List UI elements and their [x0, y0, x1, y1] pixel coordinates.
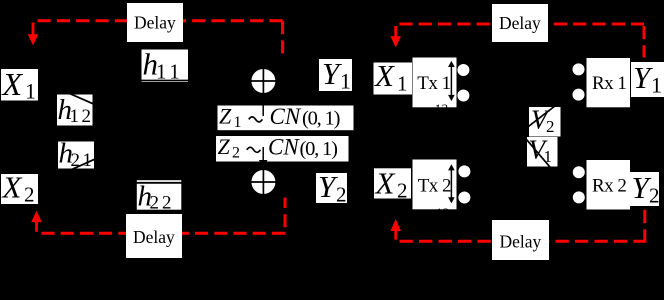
label V2 side information — [529, 105, 561, 137]
svg-text:Delay: Delay — [134, 13, 176, 33]
wire: X2 to adder1 crossing h21 — [62, 155, 104, 174]
node Y1 (right diagram) — [631, 60, 664, 98]
adder U2 (bottom sum node) — [250, 169, 276, 195]
svg-text:Tx 2: Tx 2 — [418, 176, 451, 197]
svg-text:Delay: Delay — [133, 227, 175, 247]
wire: Z2 arrow into adder2 — [262, 147, 264, 162]
wire: Tx2 to Rx1 crossing V2 — [524, 101, 562, 130]
wire: right feedback bottom (Y2 to X2 via delay), red dashed — [400, 206, 645, 243]
wire: left feedback bottom (Y2 to X2 via delay), red dashed — [42, 198, 286, 234]
svg-text:1: 1 — [544, 147, 553, 166]
antenna dot Rx1 bottom — [573, 89, 585, 101]
antenna dot Tx1 top — [457, 64, 469, 76]
wire: right feedback top (Y1 to X1 via delay), red dashed — [399, 24, 644, 58]
svg-text:Y: Y — [633, 60, 653, 95]
antenna dot Tx2 bottom — [458, 192, 470, 204]
svg-text:Delay: Delay — [499, 13, 541, 33]
wire: X1 to adder2 crossing h12 — [62, 90, 100, 107]
svg-text:X: X — [373, 58, 395, 93]
label V1 side information — [527, 135, 558, 167]
svg-text:Y: Y — [318, 169, 338, 204]
node X1 (left diagram) — [1, 66, 39, 104]
antenna dot Rx2 top — [573, 166, 585, 178]
label Z1 noise — [218, 103, 354, 131]
svg-text:1: 1 — [25, 79, 36, 104]
node Y2 (right diagram) — [630, 170, 660, 208]
svg-text:22: 22 — [150, 193, 175, 214]
label h21 channel gain — [58, 138, 95, 172]
wire: X1 to adder1 crossing under h11 — [138, 80, 191, 82]
label h22 channel gain — [137, 180, 182, 213]
svg-text:Y: Y — [322, 56, 342, 91]
svg-text:1: 1 — [397, 72, 408, 96]
node Y1 (left diagram) — [319, 56, 352, 94]
svg-text:2: 2 — [546, 117, 555, 136]
svg-text:Rx 2: Rx 2 — [592, 176, 626, 197]
svg-text:CN: CN — [268, 135, 300, 160]
svg-text:1: 1 — [340, 69, 351, 94]
label h11 channel gain — [142, 47, 189, 84]
antenna dot Rx1 top — [573, 63, 585, 75]
svg-text:Delay: Delay — [500, 232, 542, 252]
antenna dot Rx2 bottom — [573, 191, 585, 203]
svg-text:X: X — [374, 165, 396, 200]
block Delay (left bottom) — [126, 214, 182, 258]
block Delay (right top) — [492, 4, 548, 42]
svg-text:(0, 1): (0, 1) — [300, 138, 338, 160]
svg-text:12: 12 — [70, 106, 94, 127]
node X1 (right diagram) — [373, 58, 412, 96]
svg-text:12: 12 — [434, 102, 448, 117]
node X2 (right diagram) — [374, 165, 412, 202]
svg-text:Rx 1: Rx 1 — [592, 73, 626, 94]
svg-text:2: 2 — [24, 183, 35, 207]
block Delay (left top) — [127, 3, 183, 42]
arrowhead red: into X1 left — [28, 23, 39, 46]
svg-text:1: 1 — [651, 73, 662, 98]
svg-text:2: 2 — [336, 183, 347, 207]
block Tx 2 — [413, 160, 457, 210]
svg-text:X: X — [1, 66, 24, 102]
block Rx 1 — [587, 58, 631, 107]
wire: Z1 arrow tail into adder1 — [262, 105, 264, 116]
node Y2 (left diagram) — [316, 169, 347, 207]
arrowhead red: into X2 left — [31, 211, 42, 232]
node X2 (left diagram) — [1, 170, 39, 207]
adder U1 (top sum node) — [250, 68, 276, 94]
svg-text:Z: Z — [218, 134, 231, 159]
svg-text:1: 1 — [234, 114, 242, 131]
block Tx 1 — [413, 58, 457, 108]
svg-text:2: 2 — [649, 184, 660, 208]
svg-text:Tx 1: Tx 1 — [417, 73, 450, 94]
svg-text:12: 12 — [435, 206, 449, 221]
svg-text:CN: CN — [270, 104, 302, 129]
label h12 channel gain — [57, 94, 94, 127]
svg-text:2: 2 — [397, 178, 408, 202]
antenna arrow inside Tx 2 — [448, 164, 455, 203]
arrowhead red: into X1 right — [390, 26, 401, 47]
svg-text:X: X — [1, 170, 23, 205]
wire: X2 to adder2 crossing over h22 — [132, 182, 187, 184]
svg-text:2: 2 — [232, 144, 240, 161]
svg-text:(0, 1): (0, 1) — [302, 108, 340, 130]
block Rx 2 — [587, 160, 631, 210]
wire: Tx1 to Rx2 crossing V1 — [524, 137, 552, 170]
svg-text:Z: Z — [219, 103, 232, 128]
antenna dot Tx1 bottom — [457, 90, 469, 102]
wire: left feedback top (Y1 to X1 via delay), red dashed — [38, 21, 283, 58]
label Z2 noise — [216, 134, 349, 162]
block Delay (right bottom) — [492, 220, 549, 260]
arrowhead red: into X2 right — [390, 219, 401, 240]
antenna arrow inside Tx 1 — [448, 61, 455, 101]
antenna dot Tx2 top — [458, 165, 470, 177]
